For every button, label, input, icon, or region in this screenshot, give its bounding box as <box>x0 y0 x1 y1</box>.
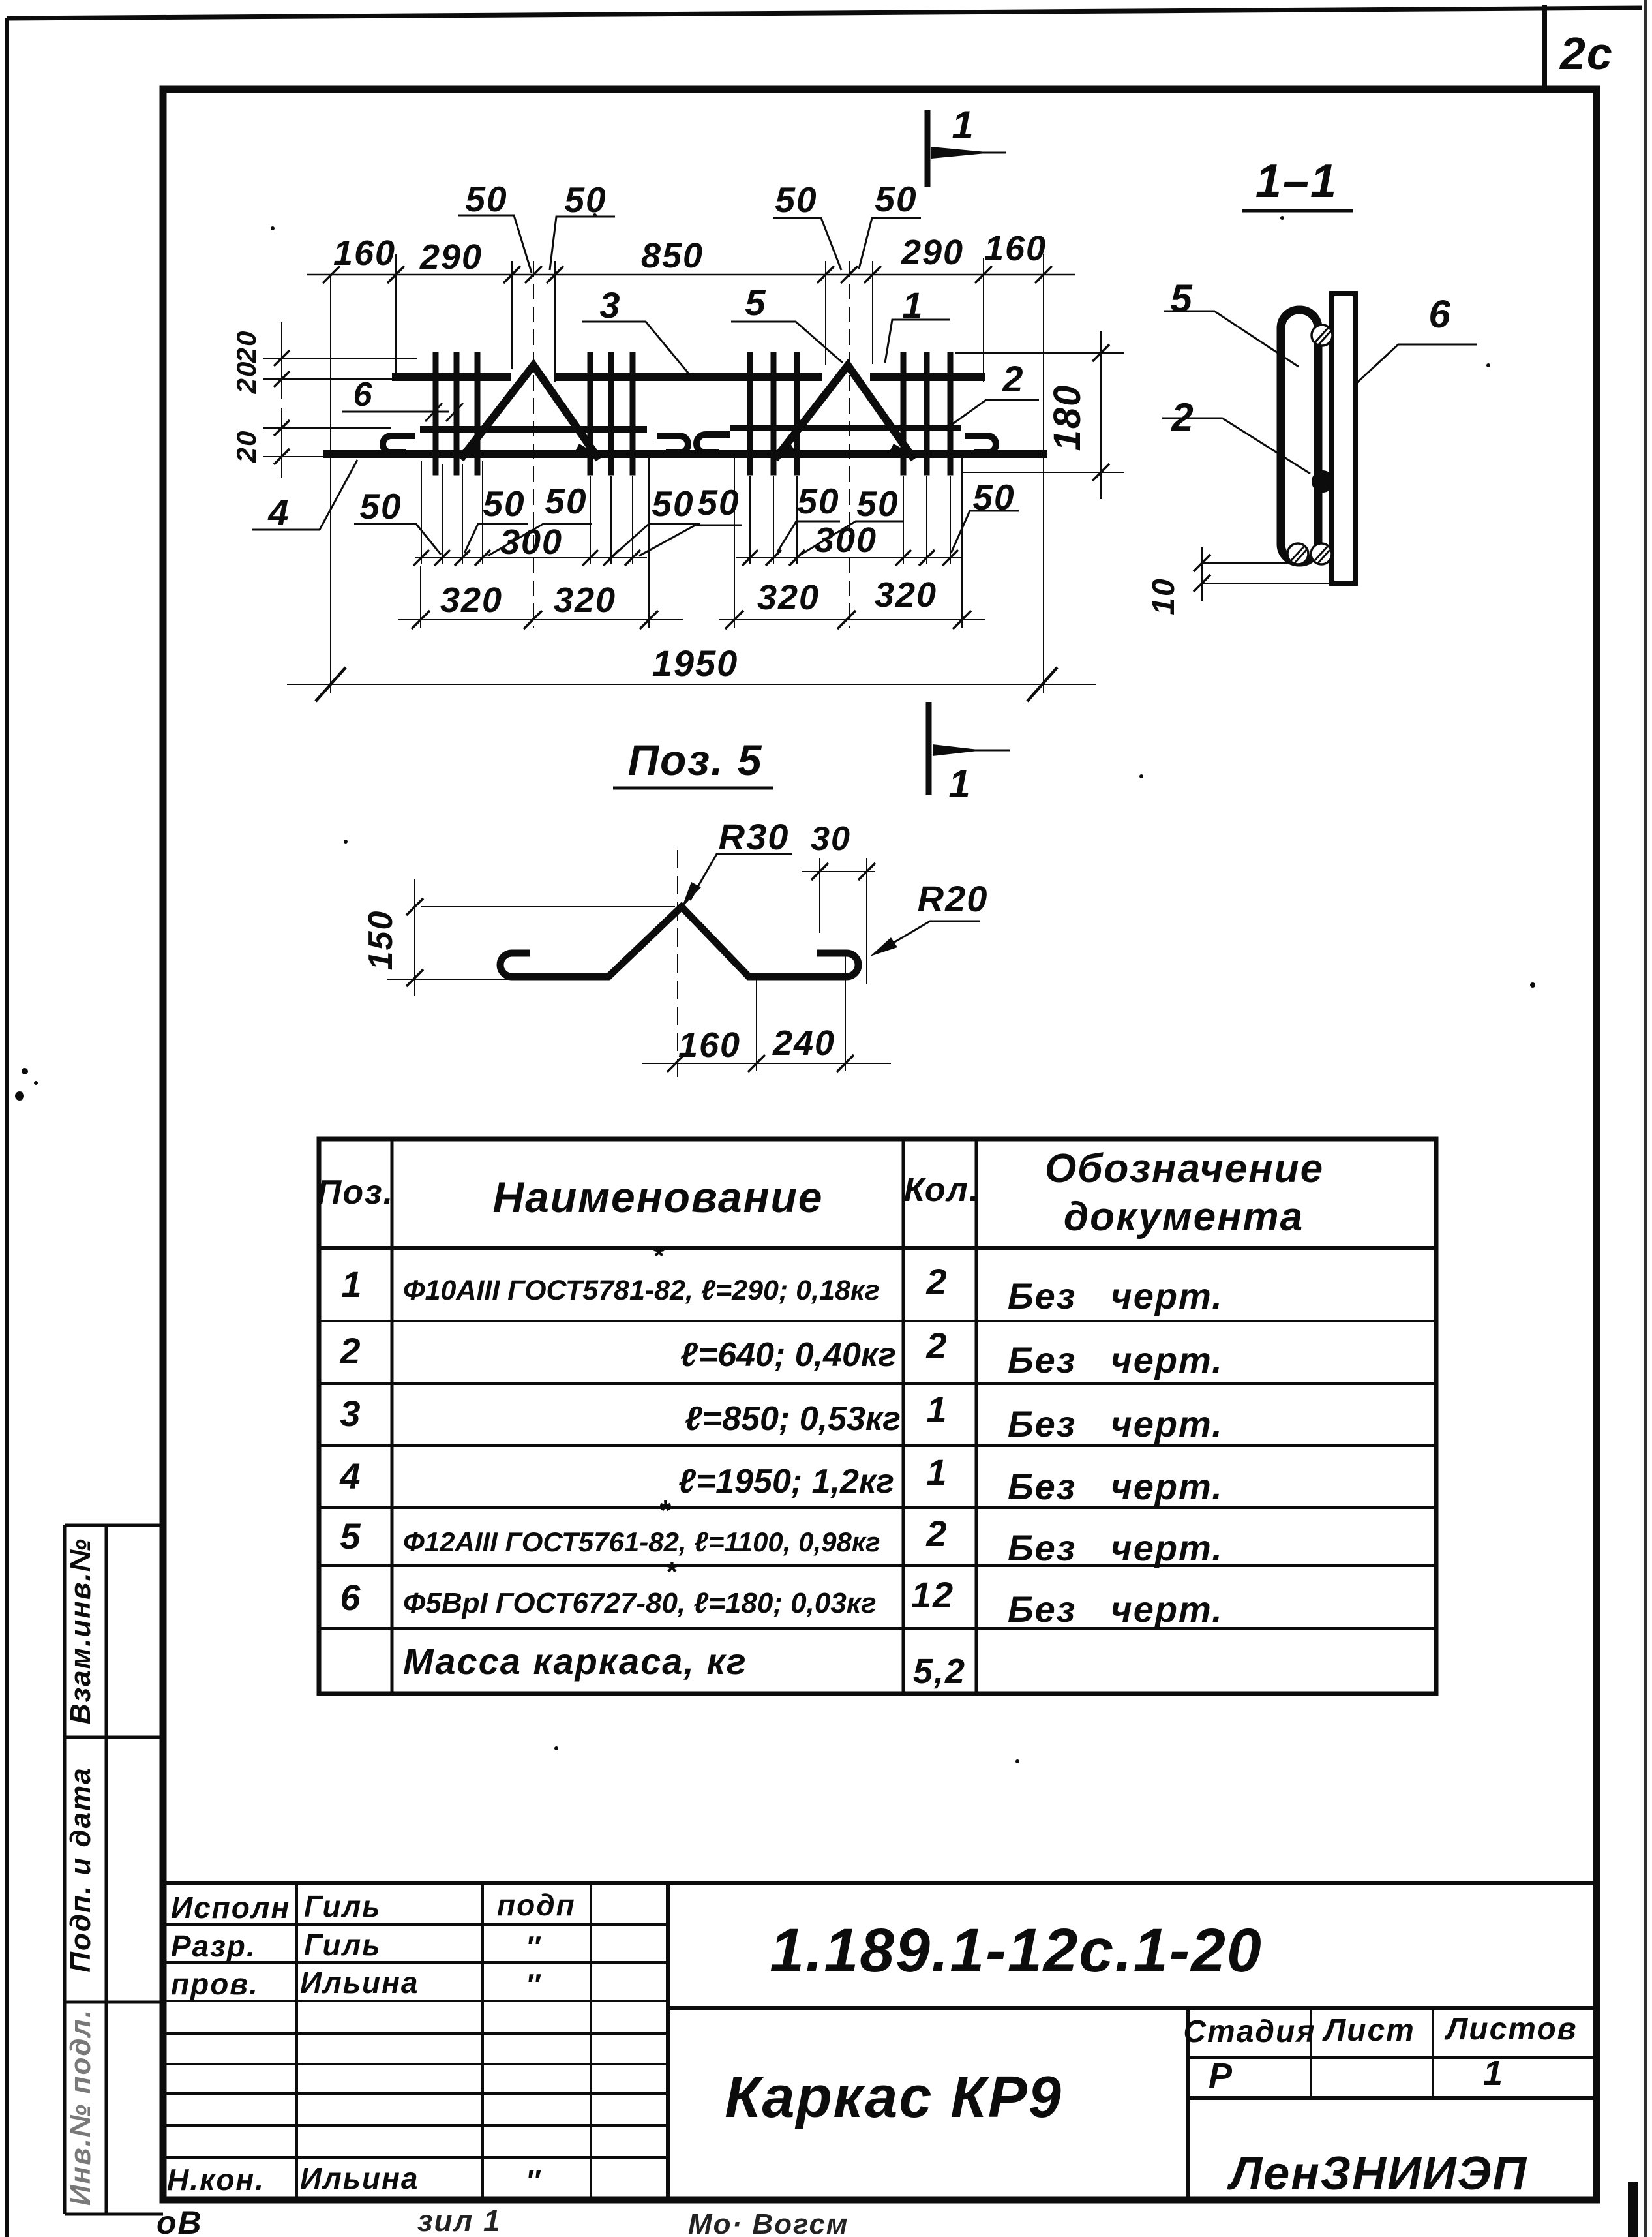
svg-text:документа: документа <box>1064 1195 1304 1240</box>
svg-text:2: 2 <box>1002 358 1024 399</box>
bottom bar sections (hatched circles) <box>1287 543 1332 564</box>
svg-text:1: 1 <box>952 103 974 147</box>
svg-text:30: 30 <box>811 820 851 858</box>
svg-text:Ильина: Ильина <box>300 1966 419 2000</box>
table row lines <box>319 1320 1436 1322</box>
svg-text:2: 2 <box>925 1261 948 1302</box>
svg-text:Р: Р <box>1209 2056 1233 2095</box>
vertical between name box and stadia <box>1186 2008 1190 2200</box>
tick marks 320-chain <box>412 611 971 629</box>
svg-text:20: 20 <box>231 361 262 395</box>
tick marks 50-chain <box>413 550 958 566</box>
svg-text:3: 3 <box>340 1393 361 1434</box>
item 5 loop (bent bar seen edge-on) <box>1281 310 1318 562</box>
svg-text:50: 50 <box>697 482 740 523</box>
svg-text:2с: 2с <box>1559 28 1614 79</box>
svg-text:пров.: пров. <box>171 1967 259 2001</box>
svg-text:320: 320 <box>440 581 503 620</box>
svg-text:*: * <box>659 1495 671 1527</box>
hook item 5 left end (tri 2) <box>697 434 727 453</box>
item 6 wire section top (hatched circle) <box>1312 325 1332 346</box>
svg-text:20: 20 <box>231 430 262 464</box>
svg-text:50: 50 <box>564 179 607 220</box>
centerline triangle 1 <box>533 261 534 628</box>
svg-text:160: 160 <box>333 234 396 273</box>
svg-text:290: 290 <box>901 233 964 272</box>
svg-text:Исполн: Исполн <box>171 1891 290 1925</box>
svg-text:160: 160 <box>678 1026 741 1065</box>
svg-text:850: 850 <box>641 236 704 275</box>
zigzag item 5 left triangle <box>463 365 597 456</box>
svg-text:3: 3 <box>599 284 621 326</box>
dim line 1950 <box>287 684 1096 685</box>
svg-text:5,2: 5,2 <box>913 1652 966 1691</box>
dim vline lower <box>281 408 282 478</box>
doc number box bottom <box>668 2006 1597 2010</box>
svg-text:Масса каркаса, кг: Масса каркаса, кг <box>403 1641 747 1682</box>
svg-text:240: 240 <box>772 1024 835 1063</box>
svg-text:150: 150 <box>362 910 400 971</box>
svg-text:2: 2 <box>925 1513 948 1554</box>
wire item 6 verticals group 3 <box>750 355 797 472</box>
svg-text:180: 180 <box>1046 384 1089 451</box>
svg-text:Подп. и дата: Подп. и дата <box>65 1767 97 1972</box>
tick marks top dim <box>323 266 1052 283</box>
ext line bottom chord <box>263 456 327 457</box>
svg-text:Ф5ВрI ГОСТ6727-80, ℓ=180; 0,03: Ф5ВрI ГОСТ6727-80, ℓ=180; 0,03кг <box>403 1587 877 1619</box>
svg-text:Поз.: Поз. <box>317 1174 394 1211</box>
svg-text:2: 2 <box>339 1330 361 1371</box>
centerline triangle 2 <box>849 261 850 628</box>
svg-text:*: * <box>652 1240 665 1272</box>
svg-text:R30: R30 <box>719 816 790 857</box>
svg-text:4: 4 <box>267 492 290 533</box>
svg-text:160: 160 <box>984 229 1047 268</box>
svg-text:Без черт.: Без черт. <box>1008 1403 1224 1444</box>
dim vline upper <box>281 322 282 399</box>
svg-text:Кол.: Кол. <box>904 1171 980 1209</box>
svg-text:50: 50 <box>797 481 839 521</box>
item 5 zigzag profile <box>500 907 858 977</box>
svg-text:5: 5 <box>1170 277 1193 320</box>
hook item 5 left end (tri 1) <box>383 436 412 453</box>
svg-text:50: 50 <box>545 481 587 521</box>
svg-text:6: 6 <box>340 1577 361 1618</box>
svg-text:Поз. 5: Поз. 5 <box>628 736 763 784</box>
centerline of peak <box>677 850 678 1079</box>
150 dim <box>387 879 675 996</box>
svg-text:Ильина: Ильина <box>300 2161 419 2195</box>
svg-text:Каркас КР9: Каркас КР9 <box>725 2065 1062 2130</box>
wire item 6 verticals group 2 <box>590 355 633 472</box>
bar item 4 bottom chord <box>327 450 1044 458</box>
bottom dims 160/240 <box>642 954 891 1071</box>
svg-text:Без черт.: Без черт. <box>1008 1589 1224 1630</box>
svg-text:Листов: Листов <box>1444 2012 1577 2047</box>
svg-text:300: 300 <box>500 523 563 562</box>
svg-text:1: 1 <box>341 1264 363 1305</box>
bar item 2 right <box>734 425 957 431</box>
personnel table columns <box>295 1883 298 2200</box>
dim line 50-chain left <box>415 557 647 558</box>
svg-text:5: 5 <box>340 1515 361 1557</box>
svg-text:5: 5 <box>745 282 766 323</box>
svg-text:1: 1 <box>948 762 971 806</box>
weld blobs at triangle feet <box>457 444 912 454</box>
10 dim (section) <box>1202 547 1332 601</box>
svg-text:Без черт.: Без черт. <box>1008 1527 1224 1568</box>
wire item 6 verticals group 4 <box>903 355 950 472</box>
svg-text:ЛенЗНИИЭП: ЛенЗНИИЭП <box>1227 2148 1528 2200</box>
svg-text:50: 50 <box>465 179 507 219</box>
table outer border <box>319 1139 1436 1694</box>
dim line 50-chain right <box>736 557 962 558</box>
bar item 1 top right (290) <box>874 373 982 381</box>
svg-text:*: * <box>665 1556 678 1588</box>
svg-text:Обозначение: Обозначение <box>1045 1146 1324 1191</box>
page right edge line <box>1644 0 1647 2237</box>
svg-text:″: ″ <box>526 1930 541 1964</box>
ext lines to 320-chain <box>420 566 421 628</box>
svg-text:Ф10АIII ГОСТ5781-82, ℓ=290; 0,: Ф10АIII ГОСТ5781-82, ℓ=290; 0,18кг <box>403 1275 880 1306</box>
svg-text:Н.кон.: Н.кон. <box>167 2163 265 2197</box>
svg-text:подп: подп <box>497 1888 576 1922</box>
stadia table lines <box>1188 2056 1597 2059</box>
svg-text:ℓ=1950; 1,2кг: ℓ=1950; 1,2кг <box>678 1463 894 1500</box>
svg-text:2: 2 <box>925 1325 948 1366</box>
title block top line <box>163 1881 1597 1885</box>
ext lines bars to 50-chain <box>421 461 422 564</box>
svg-text:Разр.: Разр. <box>171 1929 256 1963</box>
svg-text:1: 1 <box>926 1452 948 1493</box>
item 6 flat plate <box>1332 294 1355 583</box>
svg-text:50: 50 <box>483 483 525 524</box>
svg-text:320: 320 <box>875 575 937 615</box>
item 2 bar section (solid circle) <box>1312 470 1334 493</box>
svg-text:290: 290 <box>419 237 483 277</box>
section mark 1 top <box>927 110 1006 187</box>
svg-text:Гиль: Гиль <box>304 1889 382 1923</box>
page corner blob bottom right <box>1628 2182 1638 2237</box>
svg-text:″: ″ <box>526 1968 541 2001</box>
svg-text:1950: 1950 <box>652 643 739 684</box>
page outer left border <box>5 18 9 2237</box>
svg-text:320: 320 <box>757 578 820 617</box>
svg-text:6: 6 <box>1428 292 1451 336</box>
table header bottom line <box>319 1246 1436 1250</box>
svg-text:50: 50 <box>856 483 899 524</box>
dim line 320-chain right <box>719 619 985 620</box>
svg-text:оВ: оВ <box>157 2204 203 2237</box>
section mark 1 bottom <box>929 702 1010 795</box>
extension lines top <box>330 274 331 693</box>
svg-text:Мо· Вогсм: Мо· Вогсм <box>688 2208 849 2237</box>
svg-text:50: 50 <box>652 483 694 524</box>
sheet number box separator <box>1542 5 1547 89</box>
svg-text:50: 50 <box>359 486 402 526</box>
dim line top <box>307 274 1075 276</box>
svg-text:Ф12АIII ГОСТ5761-82, ℓ=1100, 0: Ф12АIII ГОСТ5761-82, ℓ=1100, 0,98кг <box>403 1527 880 1557</box>
svg-text:Наименование: Наименование <box>493 1173 824 1221</box>
svg-text:10: 10 <box>1147 577 1181 615</box>
bar item 1 top left (290) <box>396 373 507 381</box>
scan speckles <box>15 213 1535 1763</box>
svg-text:1: 1 <box>926 1389 948 1430</box>
svg-text:Без черт.: Без черт. <box>1008 1339 1224 1380</box>
dim line 320-chain left <box>398 619 683 620</box>
svg-text:20: 20 <box>231 330 262 364</box>
ext line item2 level <box>263 427 391 429</box>
svg-text:4: 4 <box>339 1455 361 1497</box>
page outer top border <box>7 8 1642 18</box>
svg-text:Без черт.: Без черт. <box>1008 1275 1224 1316</box>
ext line bars top <box>263 358 417 359</box>
svg-text:6: 6 <box>353 376 374 414</box>
svg-text:ℓ=640; 0,40кг: ℓ=640; 0,40кг <box>680 1336 896 1374</box>
svg-text:Без черт.: Без черт. <box>1008 1466 1224 1507</box>
tick marks 1950 <box>316 667 1057 701</box>
hook item 5 right end (tri 2) <box>968 436 996 453</box>
svg-text:1: 1 <box>1483 2054 1504 2093</box>
svg-text:″: ″ <box>526 2163 541 2197</box>
svg-text:320: 320 <box>554 581 616 620</box>
svg-text:R20: R20 <box>918 878 989 919</box>
zigzag item 5 right triangle <box>777 365 912 456</box>
svg-text:Гиль: Гиль <box>304 1928 382 1962</box>
svg-text:Лист: Лист <box>1322 2013 1415 2048</box>
personnel rows <box>163 1923 668 1926</box>
hook item 5 right end (tri 1) <box>660 436 688 453</box>
svg-text:50: 50 <box>775 179 817 220</box>
table column lines <box>391 1139 394 1694</box>
svg-text:Стадия: Стадия <box>1183 2015 1315 2049</box>
svg-text:1–1: 1–1 <box>1255 155 1338 207</box>
svg-text:50: 50 <box>875 179 917 219</box>
svg-text:Взам.инв.№: Взам.инв.№ <box>65 1538 97 1724</box>
bar item 2 left <box>423 426 644 433</box>
wire item 6 verticals group 1 <box>436 355 477 472</box>
svg-text:ℓ=850; 0,53кг: ℓ=850; 0,53кг <box>685 1400 901 1438</box>
svg-text:Инв.№ подл.: Инв.№ подл. <box>65 2009 97 2206</box>
ext line top chord <box>263 378 398 380</box>
bar item 3 top middle (850) <box>558 373 818 381</box>
svg-text:12: 12 <box>911 1574 954 1615</box>
svg-text:зил 1: зил 1 <box>417 2204 502 2237</box>
svg-text:1.189.1-12с.1-20: 1.189.1-12с.1-20 <box>770 1916 1263 1985</box>
svg-text:300: 300 <box>815 521 877 560</box>
